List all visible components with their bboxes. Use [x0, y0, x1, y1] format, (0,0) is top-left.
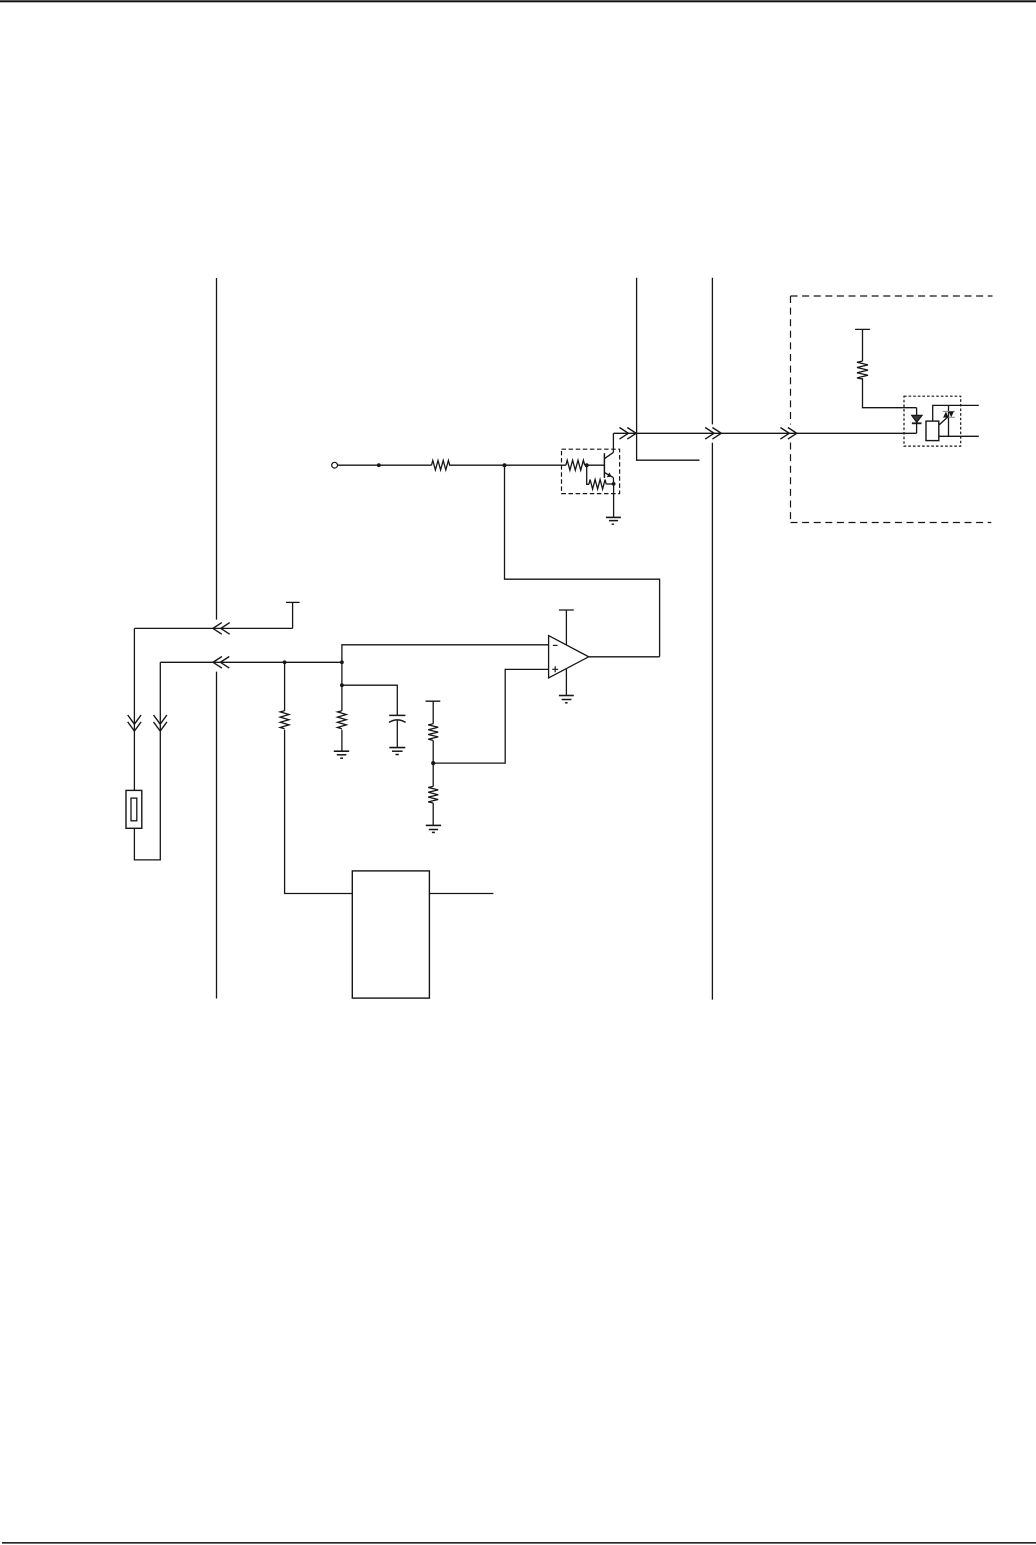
resistor R1	[432, 461, 450, 470]
arrow chevron 3	[780, 428, 796, 440]
wire: V1 down to fuse	[133, 628, 135, 790]
arrow chevron on W1	[213, 623, 230, 635]
wire: right vertical bus	[711, 278, 713, 1000]
arrow chevron 1	[620, 428, 637, 440]
wire: junction to R8	[432, 763, 434, 786]
wire: opto bottom lead	[939, 435, 979, 437]
node: dot on input wire	[377, 463, 381, 467]
ground: R6	[334, 751, 349, 758]
arrow chevron on V2	[154, 715, 167, 731]
resistor R8	[428, 786, 438, 803]
terminal T1: W1 supply bar	[286, 601, 300, 603]
transistor Q1	[604, 452, 613, 478]
dashed box: SSR module outline	[791, 296, 993, 523]
wire: block output stub	[429, 893, 493, 895]
node: emitter junction	[612, 482, 616, 486]
wire: cap to ground	[396, 720, 398, 747]
node: capacitor tap junction	[340, 683, 344, 687]
resistor R4	[857, 361, 868, 379]
arrow chevron on V1	[128, 715, 141, 731]
node: W2 right junction	[340, 660, 344, 664]
op-amp U1	[549, 636, 589, 678]
ground: Q1 emitter	[606, 517, 621, 524]
power rail T2: divider supply	[426, 701, 441, 724]
wire: feedback loop node A to op-amp output	[505, 465, 660, 657]
wire: left vertical bus	[216, 278, 218, 999]
power rail: op-amp V+	[559, 610, 574, 645]
wire: base wire	[587, 464, 604, 466]
wire: R1 to feedback node	[449, 464, 505, 466]
wire: cap branch	[342, 685, 397, 715]
resistor R3	[589, 480, 606, 490]
opto body	[926, 421, 939, 441]
page bottom rule	[2, 1542, 1036, 1544]
wire: inverting input	[342, 645, 549, 663]
wire: op-amp ground stub	[565, 669, 567, 695]
node A: feedback junction	[503, 463, 507, 467]
wire: R4 to LED anode	[863, 378, 917, 408]
wire: fuse bottom loop up to W2	[134, 662, 160, 860]
wire: R6 branch	[341, 662, 343, 751]
wire: collector up to bus	[612, 433, 614, 452]
arrow chevron on W2	[213, 657, 229, 669]
wire: main horizontal bus to SSR	[613, 432, 916, 434]
wire W2: lower left feed	[160, 661, 342, 663]
wire: divider to op-amp non-inverting input	[433, 669, 548, 763]
wire W1: upper left feed	[134, 602, 292, 628]
wire: node A to R2	[505, 464, 566, 466]
wire: R7 to junction	[432, 740, 434, 763]
resistor R6	[338, 711, 347, 729]
block: control module	[352, 871, 429, 998]
wire: R3 to emitter node	[606, 483, 613, 485]
triac	[939, 405, 955, 436]
capacitor C1	[389, 715, 406, 722]
ground: R8	[426, 825, 441, 832]
wire: emitter to ground	[613, 484, 615, 517]
node: Q1 base junction	[585, 463, 589, 467]
diode D1 (LED)	[912, 408, 922, 434]
dashed box: Q1 bias network	[562, 449, 620, 493]
terminal: input open circle	[332, 462, 338, 468]
fuse F1	[126, 790, 142, 828]
wire: input to R1	[338, 464, 432, 466]
ground: op-amp	[559, 696, 574, 703]
ground: C1	[389, 748, 405, 755]
wire: R8 to ground	[432, 803, 434, 825]
page top rule	[0, 0, 1036, 2]
power rail T3: SSR internal supply	[855, 329, 870, 361]
arrow chevron 2	[705, 428, 721, 440]
wire: R3 riser	[587, 465, 589, 484]
inner dashed box: opto-coupler	[904, 396, 961, 446]
wire: op-amp output	[589, 656, 660, 658]
wire: middle vertical bus with stub	[637, 278, 700, 460]
resistor R7	[428, 724, 438, 741]
resistor R5	[280, 711, 289, 729]
wire: R5 branch down to block	[285, 662, 353, 893]
node: W2 left junction	[283, 660, 287, 664]
node: divider junction	[431, 761, 435, 765]
wire: opto top lead	[933, 405, 979, 421]
wire: emitter to node	[612, 478, 614, 485]
resistor R2	[566, 460, 585, 470]
